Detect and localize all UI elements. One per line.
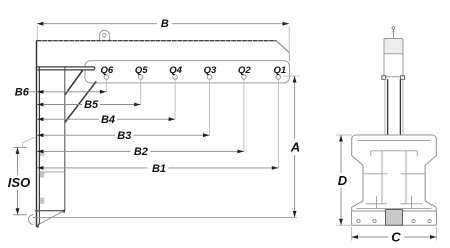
svg-text:Q1: Q1 [273,65,286,76]
svg-text:A: A [290,140,300,155]
svg-text:Q5: Q5 [135,65,148,76]
svg-text:Q6: Q6 [100,65,113,76]
svg-text:B2: B2 [134,146,148,158]
svg-text:B4: B4 [101,114,115,126]
svg-text:Q2: Q2 [238,65,251,76]
svg-text:B5: B5 [84,99,99,111]
svg-text:Q3: Q3 [204,65,217,76]
svg-text:B: B [161,18,169,30]
svg-text:D: D [338,173,348,188]
svg-text:B3: B3 [117,130,131,142]
svg-text:B6: B6 [15,86,30,98]
svg-text:C: C [391,230,401,245]
svg-text:B1: B1 [152,163,166,175]
svg-text:Q4: Q4 [169,65,182,76]
svg-text:ISO: ISO [8,175,30,190]
